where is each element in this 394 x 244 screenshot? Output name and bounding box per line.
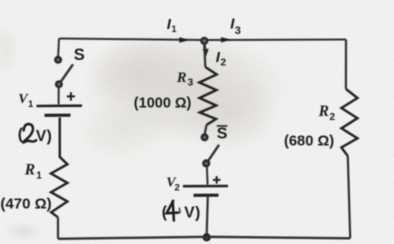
wire switch to battery V2: [206, 167, 209, 185]
battery V2 positive plate: [183, 185, 228, 188]
svg-text:2: 2: [330, 112, 336, 123]
label R1: [24, 162, 43, 182]
current arrow I1: [179, 37, 190, 42]
wire right vertical bottom: [348, 156, 350, 238]
wire top right segment: [204, 39, 346, 42]
value label (1000 Ohm): [134, 95, 192, 111]
svg-text:R: R: [176, 70, 187, 86]
svg-text:(470 Ω): (470 Ω): [0, 195, 51, 212]
label S (middle switch): [217, 126, 228, 143]
value label (4 V): [162, 201, 201, 222]
wire R3 to switch: [205, 125, 207, 134]
battery V1 positive plate: [37, 104, 83, 107]
battery V1 negative plate: [45, 114, 71, 117]
plus sign V1: [67, 92, 75, 100]
value label (2V): [18, 124, 52, 145]
label R2: [318, 103, 336, 123]
wire right vertical top: [345, 40, 347, 90]
label I1: [167, 16, 177, 34]
switch S (middle) top contact: [201, 133, 209, 141]
node top junction: [200, 37, 208, 45]
svg-text:2: 2: [175, 182, 180, 193]
resistor R1: [51, 118, 67, 218]
svg-text:3: 3: [188, 78, 194, 89]
switch S (left) arm: [60, 64, 74, 83]
svg-text:(680 Ω): (680 Ω): [284, 133, 334, 149]
switch S (middle) arm: [207, 145, 219, 163]
svg-text:2: 2: [221, 58, 227, 69]
node bottom junction: [203, 233, 211, 241]
svg-text:R: R: [318, 103, 329, 120]
wire top left segment: [59, 39, 204, 41]
switch S (middle) bottom contact: [202, 159, 210, 167]
resistor R3: [199, 67, 216, 125]
wire R1 to bottom: [57, 218, 59, 239]
svg-text:S: S: [217, 126, 228, 143]
resistor R2: [341, 89, 357, 156]
label I3: [230, 16, 241, 37]
svg-text:S: S: [74, 46, 85, 64]
svg-text:V): V): [184, 205, 201, 222]
label V1: [18, 92, 34, 110]
value label (680 Ohm): [284, 133, 334, 149]
svg-text:R: R: [24, 162, 35, 179]
label I2: [216, 49, 227, 69]
label R3: [176, 70, 194, 89]
plus sign V2: [213, 176, 221, 184]
svg-text:1: 1: [36, 170, 42, 181]
wire left vertical to switch: [57, 39, 60, 58]
svg-text:V): V): [36, 128, 52, 145]
value label (470 Ohm): [0, 195, 51, 212]
svg-text:(1000 Ω): (1000 Ω): [134, 95, 192, 111]
current arrow I2: [203, 44, 209, 57]
battery V2 negative plate: [194, 194, 219, 197]
switch S (left) bottom contact: [55, 80, 63, 88]
wire junction to R3: [204, 43, 205, 67]
label V2: [166, 175, 179, 193]
wire switch to battery V1: [58, 88, 60, 105]
wire bottom: [58, 237, 350, 239]
svg-text:3: 3: [235, 25, 241, 37]
svg-text:1: 1: [172, 24, 177, 34]
label S (left switch): [74, 46, 85, 64]
current arrow I3: [221, 37, 232, 42]
svg-text:1: 1: [28, 99, 34, 110]
switch S (left) top contact: [54, 56, 62, 64]
wire V2 to bottom junction: [207, 197, 208, 234]
